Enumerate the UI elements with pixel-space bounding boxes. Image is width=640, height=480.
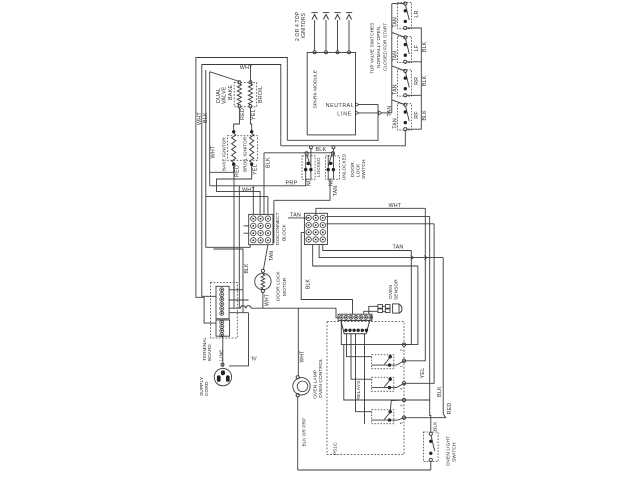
- svg-text:BLK: BLK: [316, 147, 327, 153]
- valve switch LF dashed box: [398, 36, 412, 62]
- wire bake valve to bake ignitor: [234, 108, 240, 132]
- svg-text:TAN: TAN: [393, 17, 399, 28]
- control connector pin 1: [344, 329, 347, 332]
- switch RR bottom terminal: [404, 94, 407, 97]
- svg-text:BLOCK: BLOCK: [281, 224, 287, 241]
- svg-text:SUPPLY: SUPPLY: [199, 376, 205, 396]
- bake/broil ignitor dashed box: [228, 136, 258, 161]
- wire broil valve to top rail: [250, 65, 252, 82]
- wire spine to LR top: [392, 3, 406, 5]
- wire RED drop from bake ignitor: [233, 166, 235, 309]
- svg-text:LINE: LINE: [337, 112, 352, 118]
- oven control terminal 1: [402, 359, 405, 362]
- wire t4 to oven light switch: [430, 400, 431, 432]
- valve switch RR dashed box: [398, 70, 412, 96]
- svg-text:BAKE IGNITOR: BAKE IGNITOR: [221, 137, 226, 171]
- svg-text:WHT: WHT: [389, 203, 402, 209]
- svg-text:BLK: BLK: [244, 263, 250, 274]
- disconnect block right terminal r3c3: [320, 230, 325, 235]
- svg-text:LOCK: LOCK: [355, 163, 361, 177]
- wire lamp to bottom rail: [297, 397, 299, 470]
- svg-text:BLK: BLK: [422, 41, 428, 52]
- svg-text:4: 4: [399, 388, 403, 390]
- wire spine diagonal to RR top: [392, 66, 406, 71]
- wire branch into disconnect block col1: [252, 186, 254, 215]
- oven light switch bottom terminal: [429, 458, 432, 461]
- supply cord plug terminal: [221, 363, 224, 366]
- switch LR bottom terminal: [404, 26, 407, 29]
- disconnect block right terminal r3c1: [306, 230, 311, 235]
- supply cord plug prongs: [217, 375, 221, 381]
- wire block underrail 1: [206, 245, 250, 248]
- relay K3 lower contact: [388, 418, 391, 421]
- wire spine diagonal to RF top: [392, 100, 406, 105]
- switch RF top terminal: [404, 103, 407, 106]
- svg-text:RR: RR: [414, 77, 420, 85]
- ignitor output arrow 3: [337, 20, 339, 51]
- junction door sw2 upper leg: [332, 146, 335, 149]
- switch LR top terminal: [404, 2, 407, 5]
- disconnect block right terminal r2c1: [306, 222, 311, 227]
- oven light switch blade: [431, 435, 435, 451]
- switch LR contact upper: [404, 9, 407, 12]
- svg-text:WHT: WHT: [242, 187, 255, 193]
- oven control terminal 3: [402, 398, 405, 401]
- svg-text:WHT: WHT: [211, 145, 217, 158]
- svg-text:BLK: BLK: [422, 75, 428, 86]
- wire rail 2: [326, 215, 429, 217]
- svg-text:SWITCH: SWITCH: [451, 442, 457, 462]
- svg-text:BLK: BLK: [437, 386, 443, 397]
- svg-text:TAN: TAN: [393, 84, 399, 95]
- wire sw1 right leg up: [310, 149, 312, 157]
- wire PRP run to door lock switch: [210, 179, 306, 186]
- svg-text:WHT: WHT: [240, 65, 253, 71]
- svg-text:LF: LF: [414, 44, 420, 51]
- terminal board strip2 terminal 1: [220, 320, 224, 324]
- svg-text:OVEN: OVEN: [388, 285, 394, 299]
- wire TAN to switch spine: [382, 112, 392, 114]
- control strip terminal 5: [359, 315, 363, 319]
- svg-text:BLK: BLK: [422, 110, 428, 121]
- wire rail 4 RED: [319, 245, 443, 258]
- valve switch LR dashed box: [398, 3, 412, 29]
- oven control terminal 5: [402, 416, 405, 419]
- disconnect block left terminal r4c3: [265, 238, 270, 243]
- disconnect block right terminal r4c3: [320, 237, 325, 242]
- svg-text:LOCKED: LOCKED: [316, 157, 321, 177]
- stub into left block row2: [244, 225, 249, 227]
- svg-text:DISCONNECT: DISCONNECT: [275, 212, 281, 245]
- control strip terminal 4: [354, 315, 358, 319]
- door lock switch LOCKED dashed box: [302, 156, 315, 179]
- wire lamp drop: [297, 308, 299, 376]
- relay K3 blade: [384, 413, 390, 420]
- disconnect block right terminal r4c2: [313, 237, 318, 242]
- control strip terminal 6: [364, 315, 368, 319]
- relay K2 dashed box: [372, 377, 394, 391]
- wire rail 5: [313, 245, 418, 267]
- svg-text:NO: NO: [306, 178, 312, 186]
- control strip terminal 7: [369, 315, 373, 319]
- wire spine diagonal to LF top: [392, 32, 406, 37]
- disconnect block right terminal r2c2: [313, 222, 318, 227]
- terminal board strip 1: [216, 286, 229, 319]
- wire relay1 to t2: [390, 361, 405, 365]
- disconnect block left terminal r2c2: [258, 223, 263, 228]
- wire coil return bus: [364, 334, 366, 424]
- wire RED bus down to t5: [404, 258, 446, 418]
- wire relay2 to t3: [390, 383, 405, 387]
- relay K1 upper contact: [389, 355, 392, 358]
- oven control terminal 2: [402, 343, 405, 346]
- svg-text:BROIL: BROIL: [258, 86, 264, 103]
- ignitor output arrow 4: [348, 20, 350, 51]
- control strip terminal 1: [339, 315, 343, 319]
- terminal board strip2 terminal 2: [220, 325, 224, 329]
- relay K2 upper contact: [389, 378, 392, 381]
- wire cabinet outline WHT (outer rectangle): [196, 58, 287, 324]
- wire WHT ignitor vertical: [209, 72, 211, 186]
- svg-text:BLK OR PRP: BLK OR PRP: [301, 418, 306, 447]
- supply cord plug body: [214, 368, 231, 385]
- oven light switch dashed box: [424, 432, 439, 462]
- svg-text:TAN: TAN: [393, 118, 399, 129]
- control connector pin 5: [361, 329, 364, 332]
- wire t4 into relay3 blade: [390, 400, 404, 412]
- svg-text:NEUTRAL: NEUTRAL: [326, 103, 354, 109]
- svg-text:SENSOR: SENSOR: [394, 279, 400, 300]
- switch RR top terminal: [404, 69, 407, 72]
- wire TAN to door lock motor: [264, 245, 268, 270]
- node bake ignitor top: [232, 130, 235, 133]
- oven lamp L1: [293, 378, 310, 395]
- wire broil valve to broil ignitor: [251, 108, 252, 132]
- switch LF blade: [406, 39, 410, 54]
- wire broil ignitor bottom jog: [217, 166, 261, 215]
- door lock sw2 contacts: [329, 162, 332, 165]
- wire door sw2 to lower rail TAN: [274, 179, 330, 200]
- wire N feed: [230, 312, 249, 314]
- disconnect block right terminal r2c3: [320, 222, 325, 227]
- disconnect block left terminal r2c1: [251, 223, 256, 228]
- node broil ignitor top: [250, 130, 253, 133]
- wire TAN bus down to t1: [404, 251, 411, 345]
- door lock sw1 top terminal: [305, 152, 308, 155]
- door lock sw1 contacts: [307, 162, 310, 165]
- wire WHT bus down to t2: [404, 208, 425, 360]
- wire rail2b down to t3: [404, 224, 434, 383]
- switch RF contact upper: [404, 110, 407, 113]
- svg-text:RED: RED: [447, 403, 453, 415]
- switch RF bottom terminal: [404, 128, 407, 131]
- wire from bus to bake valve: [210, 72, 240, 82]
- wire coil feed relay2: [351, 334, 372, 379]
- switch LF top terminal: [404, 36, 407, 39]
- svg-text:TAN: TAN: [393, 245, 404, 251]
- svg-text:NO: NO: [328, 178, 334, 186]
- svg-text:PRP: PRP: [286, 181, 298, 187]
- door lock motor M1: [255, 273, 271, 289]
- ignitor output arrow 1: [314, 20, 316, 51]
- wire relay3 to t5: [390, 418, 405, 420]
- relay K2 blade: [384, 380, 390, 387]
- wire block underrail 2 BLK: [214, 249, 244, 313]
- svg-text:NORMALLY OPEN,: NORMALLY OPEN,: [376, 25, 381, 68]
- wire WHT rail drop into block: [315, 208, 317, 216]
- wire WHT from motor: [262, 293, 264, 309]
- switch RF blade: [406, 106, 410, 121]
- relay K3 upper contact: [389, 410, 392, 413]
- oven control terminal 4: [402, 382, 405, 385]
- resistor bake valve coil: [237, 84, 241, 105]
- svg-text:UNLOCKED: UNLOCKED: [341, 153, 346, 180]
- oven light switch top terminal: [429, 432, 432, 435]
- disconnect block left terminal r3c3: [265, 230, 270, 235]
- door lock sw2 top terminal: [331, 152, 334, 155]
- svg-text:3: 3: [399, 404, 403, 406]
- stub into left block row3: [244, 232, 249, 234]
- control strip terminal 3: [349, 315, 353, 319]
- wire N return: [229, 313, 249, 366]
- svg-text:RF: RF: [414, 111, 420, 119]
- wire line to supply plug: [222, 336, 224, 367]
- wire TAN stub to right block: [288, 217, 309, 219]
- wire lamp feed with crossovers: [230, 307, 241, 309]
- disconnect block left terminal r1c1: [251, 216, 256, 221]
- svg-text:TOP VALVE SWITCHES: TOP VALVE SWITCHES: [369, 23, 374, 74]
- wire TAN rail: [323, 245, 412, 251]
- disconnect block right terminal r4c1: [306, 237, 311, 242]
- terminal board strip2 terminal 4: [220, 333, 224, 337]
- relay K1 blade: [384, 358, 390, 365]
- door lock motor winding: [261, 274, 265, 289]
- relay K3 dashed box: [372, 410, 394, 424]
- junction door sw1 upper leg: [309, 146, 312, 149]
- terminal board dashed box: [210, 283, 237, 339]
- svg-text:BLK: BLK: [306, 278, 312, 289]
- disconnect block left terminal r1c3: [265, 216, 270, 221]
- resistor broil ignitor: [250, 134, 254, 163]
- terminal board strip2 terminal 3: [220, 329, 224, 333]
- disconnect block left terminal r3c2: [258, 230, 263, 235]
- svg-text:LR: LR: [414, 10, 420, 17]
- terminal board strip1 terminal 5: [220, 307, 224, 311]
- relay K1 lower contact: [388, 363, 391, 366]
- oven lamp top terminal: [296, 376, 299, 379]
- switch LF contact lower: [404, 54, 407, 57]
- disconnect block right terminal r3c2: [313, 230, 318, 235]
- disconnect block left terminal r2c3: [265, 223, 270, 228]
- svg-text:DOOR LOCK: DOOR LOCK: [275, 271, 281, 301]
- wire coil feed relay3: [356, 334, 372, 412]
- switch LR contact lower: [404, 20, 407, 23]
- svg-text:YEL: YEL: [252, 164, 258, 175]
- svg-text:BOARD: BOARD: [207, 344, 212, 361]
- control connector pin 4: [357, 329, 360, 332]
- oven control dashed box: [327, 322, 404, 455]
- svg-text:TAN: TAN: [393, 51, 399, 62]
- svg-text:IGNITORS: IGNITORS: [301, 12, 307, 38]
- terminal board strip1 terminal 6: [220, 311, 224, 315]
- spark module NEUTRAL terminal: [356, 103, 360, 107]
- wire NEUTRAL to down bus: [287, 105, 378, 141]
- wire rail2 down to t4: [404, 216, 430, 400]
- switch LR blade: [406, 5, 410, 20]
- terminal board strip1 terminal 4: [220, 302, 224, 306]
- control board connector strip: [338, 314, 372, 320]
- wire YEL drop: [238, 186, 240, 308]
- svg-text:OVEN CONTROL: OVEN CONTROL: [318, 358, 324, 398]
- wire cabinet inner rectangle BLK: [202, 65, 281, 297]
- svg-text:YEL: YEL: [420, 368, 426, 379]
- wire bake ignitor bottom jog: [210, 166, 234, 173]
- spark module box U1: [307, 53, 355, 135]
- disconnect block left housing: [249, 214, 273, 244]
- terminal board strip1 terminal 1: [220, 288, 224, 292]
- oven sensor plug blocks: [378, 305, 383, 309]
- door lock sw1 blade: [307, 155, 311, 166]
- wire lower rail down: [273, 200, 275, 243]
- disconnect block right housing: [304, 213, 327, 244]
- wire BLK rail down to disconnect block: [263, 153, 265, 215]
- node bake ignitor bottom: [232, 163, 235, 166]
- door lock motor bottom terminal: [261, 289, 264, 292]
- wire LR bottom to BLK chain: [407, 28, 421, 62]
- valve terminal circles: [238, 81, 241, 84]
- disconnect block right terminal r1c2: [313, 215, 318, 220]
- wire sensor jumpers: [383, 305, 386, 307]
- wire BLK chain to RF bottom: [407, 95, 421, 129]
- wire BLK feed to control board: [301, 233, 352, 315]
- svg-text:BLK: BLK: [265, 157, 271, 168]
- wire sw2 right leg up: [332, 149, 334, 157]
- node broil ignitor bottom: [250, 163, 253, 166]
- wire WHT rail: [316, 207, 426, 209]
- svg-text:SPARK MODULE: SPARK MODULE: [312, 69, 318, 108]
- wire strip down to terminal 4: [344, 345, 404, 400]
- disconnect block right terminal r1c1: [306, 215, 311, 220]
- svg-text:TAN: TAN: [269, 251, 275, 261]
- relay K1 dashed box: [372, 355, 394, 369]
- wire bottom rail: [298, 469, 431, 471]
- junction chevron 1: [411, 256, 414, 260]
- svg-text:YEL: YEL: [251, 109, 257, 120]
- control strip terminal 2: [344, 315, 348, 319]
- svg-text:2: 2: [399, 349, 403, 351]
- switch RF contact lower: [404, 121, 407, 124]
- wire lamp rail into strip: [303, 308, 340, 318]
- disconnect block left terminal r4c2: [258, 238, 263, 243]
- control connector pin 3: [352, 329, 355, 332]
- wire LINE to TAN arrow: [359, 112, 379, 114]
- wire sensor leads: [369, 306, 378, 314]
- terminal board strip 2: [216, 320, 230, 336]
- svg-text:MOTOR: MOTOR: [282, 277, 288, 296]
- wire relay1 lead B: [372, 364, 390, 366]
- switch LF contact upper: [404, 43, 407, 46]
- wire coil feed relay1: [347, 334, 372, 357]
- svg-text:OVEN LIGHT: OVEN LIGHT: [445, 436, 451, 466]
- relay K2 lower contact: [388, 386, 391, 389]
- dual valve dashed box: [234, 83, 257, 107]
- spark module LINE terminal: [356, 111, 360, 115]
- terminal board strip1 terminal 3: [220, 297, 224, 301]
- door lock switch UNLOCKED dashed box: [325, 156, 339, 179]
- wire BLK door-lock rail: [264, 152, 333, 154]
- svg-text:VALVE: VALVE: [221, 86, 227, 104]
- door lock sw2 wires: [327, 155, 329, 179]
- svg-text:CORD: CORD: [204, 381, 210, 396]
- wire strip t1 down to terminal 1: [341, 320, 404, 345]
- oven lamp bottom terminal: [296, 394, 299, 397]
- wire rail 2b: [326, 223, 434, 225]
- terminal board strip1 terminal 2: [220, 293, 224, 297]
- wire relay3 lead B: [372, 419, 390, 421]
- svg-text:RELAYS: RELAYS: [356, 380, 362, 401]
- door lock motor top terminal: [261, 269, 264, 272]
- svg-text:P51C: P51C: [332, 442, 338, 455]
- junction chevron 2: [424, 256, 427, 260]
- switch RR contact lower: [404, 87, 407, 90]
- disconnect block right terminal r1c3: [320, 215, 325, 220]
- terminal board strip1 right stub mid: [229, 299, 248, 301]
- disconnect block left terminal r4c1: [251, 238, 256, 243]
- svg-text:BLK: BLK: [432, 421, 438, 431]
- wire rail5 down to t1: [404, 266, 418, 345]
- svg-text:5: 5: [399, 422, 403, 424]
- wire BLK chain to RR bottom: [407, 62, 421, 96]
- wire relay2 lead B: [372, 387, 390, 389]
- svg-text:1: 1: [399, 365, 403, 367]
- svg-text:OVEN LAMP: OVEN LAMP: [313, 370, 319, 399]
- wire third bus into block col3: [206, 197, 268, 215]
- oven sensor bulb: [393, 304, 399, 313]
- ignitor output arrow 2: [325, 20, 327, 51]
- wire light switch to bottom rail: [430, 462, 432, 471]
- disconnect block left terminal r3c1: [251, 230, 256, 235]
- wire third left bus: [205, 70, 207, 248]
- resistor broil valve coil: [248, 84, 252, 105]
- svg-text:BROIL IGNITOR: BROIL IGNITOR: [242, 136, 247, 172]
- wire switch spine TAN: [391, 4, 393, 113]
- disconnect block left terminal r1c2: [258, 216, 263, 221]
- svg-text:BAKE: BAKE: [228, 85, 234, 100]
- svg-text:RED: RED: [235, 165, 241, 177]
- door lock sw2 blade: [328, 155, 331, 166]
- switch RR contact upper: [404, 76, 407, 79]
- terminal board strip1 right stub upper: [229, 289, 243, 291]
- svg-text:WHT: WHT: [264, 294, 270, 306]
- oven light switch contacts: [429, 440, 432, 443]
- svg-text:WHT: WHT: [299, 351, 305, 363]
- svg-text:RED: RED: [240, 108, 246, 120]
- svg-text:DOOR: DOOR: [350, 162, 356, 177]
- control board connector trapezoid: [341, 320, 370, 333]
- control connector pin 6: [365, 329, 368, 332]
- switch LF bottom terminal: [404, 60, 407, 63]
- door lock sw1 wires: [305, 155, 307, 179]
- svg-text:‘N’: ‘N’: [251, 357, 258, 363]
- resistor bake ignitor: [232, 134, 236, 163]
- svg-text:SWITCH: SWITCH: [361, 159, 367, 179]
- valve switch RF dashed box: [398, 104, 412, 130]
- svg-text:CLOSED FOR START: CLOSED FOR START: [382, 23, 387, 71]
- svg-text:TAN: TAN: [333, 186, 339, 197]
- switch RR blade: [406, 72, 410, 87]
- wire RF bottom to long run: [281, 131, 406, 146]
- junction LINE/NEUTRAL arrow: [379, 111, 383, 115]
